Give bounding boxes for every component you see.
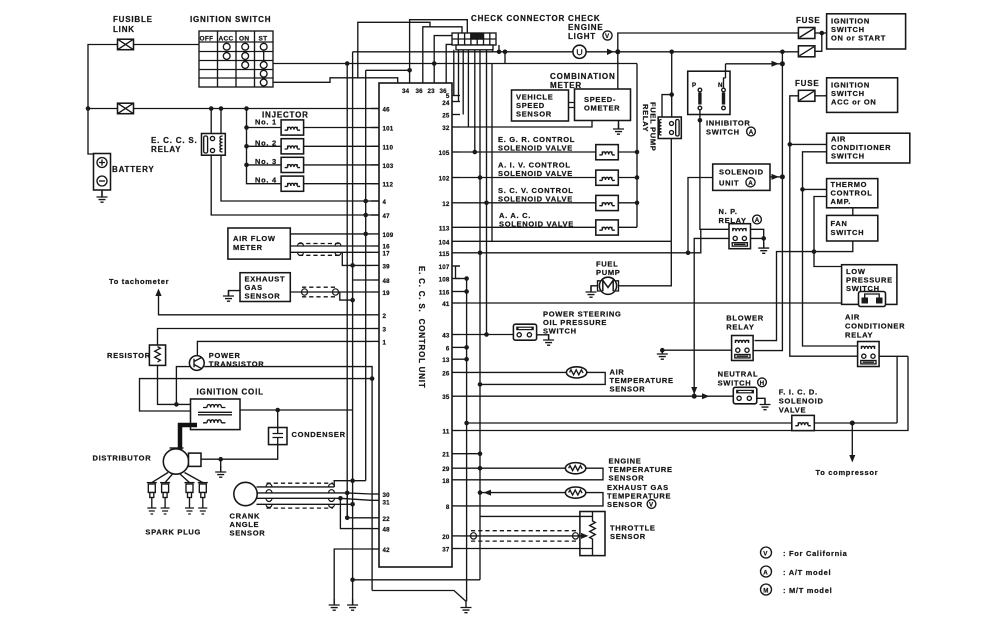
junction fuel pump relay loop <box>669 92 674 97</box>
junction ACC line at fuse F4 <box>780 50 785 55</box>
wire air flow meter to pin 16 <box>290 245 371 247</box>
svg-text:SOLENOID: SOLENOID <box>779 397 824 406</box>
wire pin 1 to power transistor base <box>197 341 371 356</box>
svg-text:SENSOR: SENSOR <box>609 474 645 483</box>
svg-text:ON: ON <box>239 36 249 43</box>
distributor pickup box <box>189 453 202 466</box>
wire AC switch output down to thermo feed <box>803 152 858 346</box>
wire AC relay right contact to FICD line <box>879 356 897 423</box>
distributor body <box>163 449 188 474</box>
wire fuse F3 to ignition switch box <box>815 32 827 34</box>
junction EGS drain ground bus <box>350 298 355 303</box>
symbol circled H neutral switch <box>758 378 767 387</box>
svg-text:11: 11 <box>443 429 450 436</box>
svg-text:SWITCH: SWITCH <box>718 379 752 388</box>
ECCS relay K1 <box>202 134 226 156</box>
wire ignition switch ON row output (long line y=63.5 to combination meter) <box>273 63 637 65</box>
spark plug 2 <box>160 483 170 514</box>
fuse F4 <box>798 46 815 57</box>
wire pin 23 to check connector <box>434 36 452 83</box>
wire speedometer top feed <box>617 52 619 89</box>
ECCS right pin ticks <box>452 96 460 549</box>
ground power steering switch <box>543 334 554 345</box>
wire check connector drop to pin 5 <box>453 50 455 96</box>
wire injector No.3 to pin 103 <box>304 164 379 166</box>
svg-text:DISTRIBUTOR: DISTRIBUTOR <box>93 454 152 463</box>
wire exhaust temp return to pin 8 <box>460 493 603 506</box>
ignition coil T1 <box>191 399 241 430</box>
svg-text:SWITCH: SWITCH <box>706 128 740 137</box>
svg-text:3: 3 <box>383 327 387 334</box>
svg-text:METER: METER <box>233 243 263 252</box>
junction crank line3 <box>338 496 343 501</box>
junction solenoid unit on pin 115 line <box>686 251 691 256</box>
junction pin 34 tie <box>407 68 412 73</box>
wire pin 36a to check connector <box>423 27 462 83</box>
svg-text:1: 1 <box>383 339 387 346</box>
condenser C1 <box>269 428 288 445</box>
junction EGR bus <box>635 150 640 155</box>
wire inhibitor N contact up to arrow line <box>725 64 727 78</box>
svg-text:AIR: AIR <box>845 313 860 322</box>
thermo control amp box <box>827 179 878 208</box>
junction bus pin 4 <box>363 199 368 204</box>
svg-text:AMP.: AMP. <box>831 197 852 206</box>
wire inhibitor to bus with arrow <box>726 63 783 65</box>
wire battery to ground <box>101 190 103 197</box>
svg-text:ON or START: ON or START <box>831 34 886 43</box>
wire thermo to fan switch <box>852 208 854 216</box>
junction thermo feed <box>800 187 805 192</box>
wire tachometer to pin 2 <box>159 292 372 315</box>
wire pin 42 to ground <box>334 549 371 605</box>
junction exhaust temp on bus <box>478 490 483 495</box>
spark plug 3 <box>185 483 195 514</box>
svg-text:E. C. C. S. CONTROL UNIT: E. C. C. S. CONTROL UNIT <box>417 266 426 389</box>
svg-text:FUSE: FUSE <box>795 79 820 88</box>
wire air flow meter to pin 109 <box>290 233 371 235</box>
wire crank sensor line 1 (power) <box>257 481 366 487</box>
svg-text:102: 102 <box>439 176 450 183</box>
svg-text:22: 22 <box>383 516 391 523</box>
junction injector No.1 feed <box>244 125 249 130</box>
solenoid unit box <box>713 164 770 190</box>
svg-text:107: 107 <box>439 264 450 271</box>
svg-text:A: A <box>755 217 760 224</box>
junction pin 109 bus <box>363 232 368 237</box>
wire pin 108 <box>460 278 467 280</box>
wire bus tie to pin 34 <box>366 69 410 71</box>
inhibitor switch contacts <box>692 78 726 115</box>
junction coil loop on vertical <box>370 376 375 381</box>
wire speedometer to ground <box>618 121 620 130</box>
wire condenser top stub <box>277 410 279 428</box>
wire fuse F4 up to junction <box>815 33 822 51</box>
svg-text:21: 21 <box>442 452 450 459</box>
junction pin 12 tap <box>484 201 489 206</box>
junction crank power on ground bus <box>350 478 355 483</box>
arrow neutral switch feed right <box>702 393 710 399</box>
shield end marks air flow meter <box>298 243 342 256</box>
wire injector No.2 to pin 110 <box>304 145 379 147</box>
svg-text:A: A <box>763 569 768 576</box>
wire exhaust gas sensor ground <box>229 291 241 296</box>
svg-text:VALVE: VALVE <box>779 406 806 415</box>
wire bus to ECCS relay <box>211 109 221 134</box>
svg-text:: M/T model: : M/T model <box>783 586 832 595</box>
svg-text:ACC or ON: ACC or ON <box>831 98 876 107</box>
svg-text:47: 47 <box>383 213 391 220</box>
svg-text:12: 12 <box>442 201 450 208</box>
wire pin 43 to power steering switch <box>460 334 513 336</box>
svg-text:V: V <box>763 550 768 557</box>
wire crank sensor line 2 to pin 30 <box>257 493 371 494</box>
svg-text:32: 32 <box>442 125 450 132</box>
symbol circled A inhibitor <box>747 127 756 136</box>
svg-text:103: 103 <box>383 163 394 170</box>
wire pin 34 to check connector <box>410 20 468 83</box>
svg-text:CHECK CONNECTOR: CHECK CONNECTOR <box>471 14 565 23</box>
junction AIV bus <box>635 175 640 180</box>
symbol circled A solenoid unit <box>746 178 755 187</box>
low pressure switch symbol <box>859 292 886 307</box>
svg-text:24: 24 <box>442 100 450 107</box>
combination meter enclosure right edge (solenoid bus) <box>636 64 638 228</box>
wire check connector drop to pin 105 <box>474 50 476 152</box>
wire pin 104 to fuel pump relay <box>460 240 671 242</box>
svg-text:101: 101 <box>383 126 394 133</box>
throttle sensor box <box>580 512 605 556</box>
ground fuel pump <box>586 286 597 297</box>
svg-text:113: 113 <box>439 225 450 232</box>
inhibitor switch box <box>688 71 730 114</box>
wire injector No.1 to pin 101 <box>304 127 379 129</box>
shield dashes exhaust gas sensor <box>302 287 337 297</box>
wire air temp sensor return to sensor bus <box>480 372 605 384</box>
wire check light line to ACC fuse <box>618 51 799 53</box>
svg-text:17: 17 <box>383 251 391 258</box>
junction check light line x=499 <box>497 50 502 55</box>
wire ignition switch ST row output staircase to ECCS top <box>273 78 398 83</box>
junction SCV bus <box>635 201 640 206</box>
arrow throttle wiper <box>581 533 589 539</box>
wire blower relay left contact to ground <box>662 350 731 354</box>
junction fuse outputs <box>820 31 825 36</box>
wire pin 20 wiper <box>460 535 586 537</box>
wire check connector drop to pin 24 <box>458 50 460 102</box>
wire pin 107 jog <box>456 266 461 279</box>
svg-text:FUSIBLE: FUSIBLE <box>113 15 153 24</box>
svg-text:115: 115 <box>439 251 450 258</box>
spark plug 1 <box>147 483 157 514</box>
vertical bus x=782.4 <box>753 52 782 351</box>
svg-text:41: 41 <box>442 301 450 308</box>
svg-text:M: M <box>763 587 768 594</box>
fuse F5 <box>798 90 815 101</box>
svg-text:19: 19 <box>383 290 391 297</box>
legend circled M <box>761 584 772 595</box>
wire pin 102 to AIV valve <box>460 177 596 179</box>
wire AIV valve to bus <box>618 177 637 179</box>
wire pin 11 long line to AC relay <box>460 356 908 430</box>
svg-text:BLOWER: BLOWER <box>726 314 764 323</box>
wire injector No.2 feed <box>247 145 282 147</box>
wire check connector drop to pin 25 <box>462 50 464 115</box>
junction below-box line on ground bus <box>350 578 355 583</box>
wire solenoid unit output arrow to bus <box>770 176 782 178</box>
wire fuse F5 to ACC box <box>815 95 827 97</box>
ground pin 42 <box>329 599 340 610</box>
svg-text:ACC: ACC <box>219 36 234 43</box>
wire ACC fuse feed <box>790 96 858 356</box>
wire pin 29 to engine temp sensor <box>460 467 565 469</box>
arrow tachometer <box>155 289 161 297</box>
svg-text:SENSOR: SENSOR <box>230 529 266 538</box>
svg-text:ST: ST <box>259 36 268 43</box>
wire FICD feed line <box>467 422 792 424</box>
low pressure switch box <box>842 265 897 305</box>
injector No.1 <box>281 120 304 135</box>
junction injector No.2 feed <box>244 144 249 149</box>
FICD solenoid valve <box>792 415 815 430</box>
svg-text:46: 46 <box>383 107 391 114</box>
wire pin 36b to check connector <box>446 44 454 83</box>
junction pin 39 ground bus <box>350 263 355 268</box>
junction solenoid unit bus <box>780 174 785 179</box>
svg-text:V: V <box>605 33 610 40</box>
svg-text:AIR FLOW: AIR FLOW <box>233 234 276 243</box>
exhaust gas temperature sensor <box>565 487 585 498</box>
svg-text:SOLENOID VALVE: SOLENOID VALVE <box>498 169 573 178</box>
junction injector feed <box>244 106 249 111</box>
wire thermo feed <box>803 188 827 190</box>
svg-text:23: 23 <box>428 88 436 95</box>
svg-text:109: 109 <box>383 232 394 239</box>
wire pin 113 to AAC valve <box>460 226 596 228</box>
wire bulb output with arrow <box>586 51 618 53</box>
svg-text:INHIBITOR: INHIBITOR <box>706 119 751 128</box>
spark plug 4 <box>198 483 208 514</box>
svg-text:: For California: : For California <box>783 549 848 558</box>
junction pin 29 tap <box>478 466 483 471</box>
wire injector No.4 to pin 112 <box>304 183 379 185</box>
wire engine temp return to pin 18 <box>460 468 603 480</box>
svg-text:RELAY: RELAY <box>641 104 650 132</box>
wire NP relay left contact to neutral feed <box>694 238 729 396</box>
junction bus to relay contact <box>209 106 214 111</box>
wire pin 48 to ground bus <box>353 279 371 281</box>
vertical bus x=365.7 (relay power to crank sensor) <box>365 70 367 480</box>
svg-text:34: 34 <box>402 88 410 95</box>
arrow exhaust temp to bus <box>484 490 492 496</box>
wire ignition coil output to condenser junction <box>240 409 353 411</box>
wire fuel pump relay coil loop <box>662 95 672 117</box>
check engine light bulb <box>573 45 586 58</box>
wire inhibitor P contact down to NP relay <box>699 115 701 121</box>
svg-text:To compressor: To compressor <box>816 468 879 477</box>
wire below-box ground line 1 <box>353 579 480 581</box>
svg-text:48: 48 <box>383 278 391 285</box>
svg-text:SENSOR: SENSOR <box>610 385 646 394</box>
blower relay K4 <box>732 336 754 361</box>
ground blower relay <box>657 348 668 359</box>
ground ECCS main <box>461 602 472 613</box>
fuel pump relay K2 <box>658 117 681 139</box>
svg-text:CONDITIONER: CONDITIONER <box>845 322 905 331</box>
wire check connector drop and sensor bus x=480 <box>479 50 481 580</box>
wire fuse F1 to ignition switch <box>134 44 200 46</box>
vehicle speed sensor box <box>512 90 569 121</box>
wire injector feed bus <box>247 109 282 184</box>
fuse F3 <box>798 28 815 39</box>
junction air temp return on bus <box>478 382 483 387</box>
injector No.3 <box>281 157 304 172</box>
ignition switch contact circles <box>223 43 267 86</box>
ground distributor pickup <box>215 466 226 477</box>
wire power transistor left lead <box>176 367 189 405</box>
wire AC switch feed <box>790 143 827 145</box>
svg-text:OFF: OFF <box>200 36 214 43</box>
ground exhaust gas sensor <box>223 290 234 301</box>
svg-text:E. C. C. S.: E. C. C. S. <box>151 136 198 145</box>
wire fuel pump to relay vertical <box>619 241 672 285</box>
junction pickup ground tap <box>218 457 223 462</box>
shield dashes air flow meter <box>299 244 340 256</box>
wire ECCS relay contact to pin 47 line <box>211 155 379 215</box>
junction pin 108 <box>464 276 469 281</box>
svg-text:SPARK PLUG: SPARK PLUG <box>145 528 201 537</box>
svg-text:13: 13 <box>442 357 450 364</box>
wire power steering switch to ground <box>537 335 549 340</box>
wire check connector drop to check light line <box>493 45 500 52</box>
wire crank line3 branch to pin 48 <box>340 498 371 528</box>
wire check engine light feed line y=51.8 <box>353 51 573 53</box>
junction pin 116 <box>464 289 469 294</box>
svg-text:SENSOR: SENSOR <box>610 532 646 541</box>
ground battery <box>97 191 108 202</box>
shield dashes throttle <box>471 531 578 541</box>
junction bus pin 47 <box>363 213 368 218</box>
wire battery feed left vertical <box>88 45 118 155</box>
svg-text:6: 6 <box>446 345 450 352</box>
wire pin 35 long line to neutral switch junction <box>460 395 694 397</box>
AC relay K5 <box>858 342 880 367</box>
ECCS left pin labels <box>383 107 394 555</box>
junction bulb output <box>615 49 620 54</box>
wire injector No.3 feed <box>247 164 282 166</box>
svg-text:31: 31 <box>383 499 391 506</box>
ground sensor bus <box>347 599 358 610</box>
legend circled A <box>761 566 772 577</box>
svg-text:104: 104 <box>439 239 450 246</box>
ignition switch ON or START box <box>827 14 906 49</box>
wire pin 26 to air temp sensor <box>460 371 567 373</box>
shield end marks exhaust gas sensor <box>302 289 339 295</box>
junction AC relay right with pin11 <box>907 355 909 357</box>
injector No.2 <box>281 139 304 154</box>
wire pin 13 <box>460 358 467 360</box>
wire AAC valve to bus corner <box>618 226 637 228</box>
svg-text:8: 8 <box>446 504 450 511</box>
air flow meter box <box>228 228 290 259</box>
junction pin 22 on bus x=347 <box>345 516 350 521</box>
junction pin 6 <box>464 345 469 350</box>
wire pin 37 to throttle bottom <box>460 548 593 550</box>
junction crank line2 <box>345 491 350 496</box>
svg-text:IGNITION SWITCH: IGNITION SWITCH <box>190 15 271 24</box>
wire ECCS relay coil to pin 4 line <box>221 155 379 201</box>
junction inhibitor bus <box>780 61 785 66</box>
wire junction up to ON-START fuse line <box>618 33 799 52</box>
ECCS right pin labels <box>439 93 450 554</box>
svg-text:N. P.: N. P. <box>719 207 738 216</box>
svg-text:H: H <box>760 380 765 387</box>
junction transistor to coil primary <box>174 402 179 407</box>
svg-text:PUMP: PUMP <box>596 268 620 277</box>
svg-text:2: 2 <box>383 313 387 320</box>
svg-text:RELAY: RELAY <box>845 331 873 340</box>
junction fuel pump relay feed top <box>669 50 674 55</box>
wire solenoid unit left to pin 115 line <box>688 178 713 253</box>
svg-text:116: 116 <box>439 290 450 297</box>
junction FICD feed <box>464 421 469 426</box>
junction ignition line to bus <box>345 61 350 66</box>
svg-text:SENSOR: SENSOR <box>607 500 643 509</box>
arrow on bulb output <box>607 49 614 55</box>
svg-text:No. 4: No. 4 <box>255 176 277 185</box>
wire crank sensor line 3 to pin 31 <box>257 498 371 500</box>
wire throttle sensor top to bus <box>480 515 593 517</box>
wire thermo left lower to low pressure feed <box>814 197 842 267</box>
junction fan to low pressure vertical <box>812 249 817 254</box>
EGR control solenoid valve <box>596 145 619 160</box>
svg-text:RELAY: RELAY <box>151 145 181 154</box>
svg-text:110: 110 <box>383 144 394 151</box>
wire VSS output to pin 32 <box>460 121 592 127</box>
wire SCV valve to bus <box>618 202 637 204</box>
svg-text:4: 4 <box>383 199 387 206</box>
junction condenser tap <box>275 408 280 413</box>
svg-text:30: 30 <box>383 492 391 499</box>
wire condenser bottom to distributor pickup <box>201 445 278 460</box>
wire check connector drop and bus x=486.5 <box>486 50 488 335</box>
svg-text:To tachometer: To tachometer <box>109 277 169 286</box>
air conditioner switch box <box>827 133 910 163</box>
ground neutral switch <box>760 399 771 410</box>
wire outer loop to check connector <box>358 22 430 78</box>
svg-text:SENSOR: SENSOR <box>245 292 281 301</box>
crank angle sensor body <box>234 482 257 505</box>
svg-text:IGNITION COIL: IGNITION COIL <box>197 388 264 397</box>
wire inhibitor drop continues <box>700 120 729 229</box>
svg-text:25: 25 <box>442 113 450 120</box>
svg-text:29: 29 <box>442 466 450 473</box>
wire fuel pump relay feed from check light line <box>671 52 673 95</box>
svg-text:LIGHT: LIGHT <box>568 32 596 41</box>
ECCS control unit U1 box <box>379 83 452 567</box>
power steering oil pressure switch <box>513 324 536 340</box>
wire below-box ground line 2 with diagonal <box>372 591 466 602</box>
junction pin 105 tap <box>473 150 478 155</box>
junction pin 115 tap <box>478 251 483 256</box>
svg-text:18: 18 <box>442 478 450 485</box>
junction pin 43 tap <box>484 332 489 337</box>
wire check connector drop to pin 32 <box>467 50 469 127</box>
svg-text:CONDENSER: CONDENSER <box>292 430 346 439</box>
SCV control solenoid valve <box>596 195 619 210</box>
shield dashes crank angle sensor <box>267 483 334 508</box>
junction blower ground <box>660 348 665 353</box>
